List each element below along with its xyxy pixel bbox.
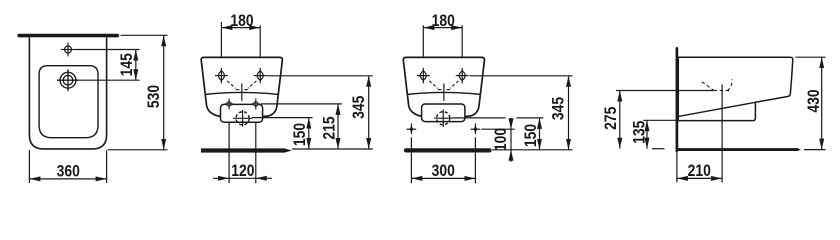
dimension 275 line [619,91,621,149]
svg-text:300: 300 [432,162,455,181]
leader from drain (150) segment B [517,117,544,119]
dimension 430 line [821,57,823,149]
extension bottom 530 [108,149,168,151]
right box bolt [251,98,260,109]
svg-text:275: 275 [602,106,621,130]
body outline (rear) [403,57,484,116]
svg-text:150: 150 [291,123,310,146]
svg-text:150: 150 [522,124,541,147]
step line [407,92,481,94]
floor line [676,148,798,151]
svg-text:180: 180 [230,12,253,31]
floor extension right 430 [804,149,826,151]
left wall-fixing hole [215,68,228,83]
leader from right wall-fixing hole (345) [470,75,573,77]
leader from faucet hole [75,49,140,51]
inner bowl outline [39,66,98,138]
ground bar [406,148,490,152]
svg-text:180: 180 [432,12,455,31]
svg-text:345: 345 [549,97,568,121]
wall bar (top view) [19,34,117,38]
left box bolt [225,98,234,109]
wall lower extension (210) [676,152,678,182]
faucet hidden detail (dashed arcs + centerline) [429,81,458,101]
svg-text:530: 530 [145,85,164,108]
leader 135 [643,119,679,121]
leader from drain (150) segment A [453,117,506,119]
faucet hole crosshair [61,43,75,57]
inner slant line [678,102,755,116]
leader top 430 [796,56,826,58]
dimension 210 line [677,177,722,179]
body outline (top view) [29,37,106,148]
extension lines 180 [220,22,222,84]
extension right 360 [106,151,108,184]
faucet hidden outline (dashed funnel, side) [702,79,732,90]
ground extension line [492,149,573,151]
body profile (side) [678,57,793,120]
leader 275 [616,90,713,92]
leader from drain (150) [252,117,313,119]
dimension 135 line [646,120,648,148]
drain crosshair (rear) [233,110,252,127]
right floor bolt [471,123,481,134]
right wall-fixing hole [456,68,469,83]
bolt extension verticals (to 120) [228,112,230,183]
siphon cover box [422,104,465,122]
dimension 150 line [308,118,310,149]
dimension 360 line [29,178,106,180]
extension lines 180 [422,25,424,83]
dimension 180 line [221,27,260,29]
floor bolt extension verticals (to 300) [410,137,412,183]
leader from floor bolt (100) [481,128,515,130]
siphon cover box [221,104,263,122]
leader from right wall-fixing hole (345) [267,75,373,77]
svg-text:100: 100 [492,128,511,151]
dimension 300 line [411,177,475,179]
drain hole crosshair [57,69,79,91]
dimension 530 line [163,35,165,150]
dimension 180 line [423,27,462,29]
wall line [676,48,679,151]
faucet hidden detail (dashed arcs + centerline) [227,81,256,101]
dimension 120 line + outside arrows [229,177,256,179]
dimension 345 line [368,76,370,149]
left floor bolt [407,123,417,134]
floor extension left [652,148,665,150]
dimension 145 line [135,50,137,81]
ground extension line [292,148,373,150]
dimension 150 line [539,118,541,150]
body outline (rear) [201,57,282,116]
drain crosshair (rear) [434,110,453,127]
left wall-fixing hole [417,68,430,83]
svg-text:145: 145 [118,53,137,77]
dimension 100 line + outside arrows [510,129,512,150]
svg-text:210: 210 [688,162,711,181]
svg-text:345: 345 [350,95,369,119]
leader from box bolt (215) [261,103,342,105]
dimension 345 line [568,76,570,150]
svg-text:360: 360 [57,162,80,181]
leader from drain [79,79,140,81]
svg-text:430: 430 [805,89,824,112]
svg-text:120: 120 [231,162,254,181]
extension top 530 [121,34,168,36]
faucet centerline / 210 extension [721,84,723,182]
step line [205,92,279,94]
dimension 215 line [337,104,339,149]
ground bar [201,148,285,152]
svg-text:215: 215 [320,116,339,140]
svg-text:135: 135 [630,120,649,144]
right wall-fixing hole [254,68,267,83]
extension left 360 [28,150,30,183]
